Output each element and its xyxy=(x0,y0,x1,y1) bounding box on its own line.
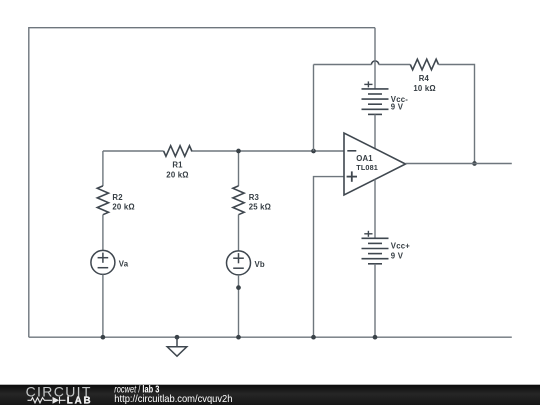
svg-text:R2: R2 xyxy=(112,193,123,202)
battery Vcc- xyxy=(362,88,389,90)
wire bottom rail xyxy=(29,336,512,338)
wire R2 bottom to Va xyxy=(102,215,104,251)
resistor R3 xyxy=(233,186,244,215)
wire supply drop from top rail xyxy=(374,28,376,89)
ground xyxy=(175,335,180,340)
wire top rail xyxy=(29,28,375,338)
svg-text:TL081: TL081 xyxy=(356,163,378,172)
wire Vcc- to op-amp xyxy=(374,114,376,148)
op-amp non-inverting input plus sign xyxy=(347,176,357,178)
node Vcc+ bottom junction xyxy=(373,335,378,340)
node Vb lead junction xyxy=(236,285,241,290)
resistor R2 xyxy=(97,186,108,215)
wire feedback horizontal right of hop xyxy=(379,64,411,66)
svg-text:Vcc+: Vcc+ xyxy=(391,242,410,251)
wire R3 top lead xyxy=(238,151,240,186)
svg-text:9 V: 9 V xyxy=(391,251,404,260)
wire hop over supply wire xyxy=(372,61,379,65)
svg-text:R1: R1 xyxy=(172,160,183,169)
wire op-amp +in xyxy=(314,177,345,338)
svg-text:25 kΩ: 25 kΩ xyxy=(249,203,271,212)
wire feedback vertical from -in xyxy=(313,65,315,152)
battery Vcc+ xyxy=(362,237,389,239)
op-amp OA1 xyxy=(344,133,406,195)
resistor R1 xyxy=(164,146,192,157)
footer title text xyxy=(114,384,159,395)
svg-text:OA1: OA1 xyxy=(356,154,373,163)
svg-text:LAB: LAB xyxy=(67,395,93,405)
resistor R4 xyxy=(410,59,438,70)
source Vb xyxy=(227,251,251,275)
node output junction xyxy=(472,161,477,166)
node +in bottom junction xyxy=(311,335,316,340)
wire op-amp to Vcc+ xyxy=(374,179,376,238)
op-amp inverting input minus sign xyxy=(347,150,356,152)
wire output xyxy=(406,163,512,165)
wire R2 top lead xyxy=(102,151,104,186)
wire feedback horizontal left of hop xyxy=(314,64,372,66)
svg-text:Va: Va xyxy=(119,259,129,268)
wire Vb bottom lead xyxy=(238,275,240,337)
wire Vcc+ to bottom rail xyxy=(374,264,376,337)
wire input net (R2 top to op-amp minus input) xyxy=(103,150,164,152)
svg-text:20 kΩ: 20 kΩ xyxy=(112,202,134,211)
svg-text:R4: R4 xyxy=(419,74,430,83)
node Vb-bottom junction xyxy=(236,335,241,340)
node Va-bottom junction xyxy=(101,335,106,340)
svg-text:9 V: 9 V xyxy=(391,103,404,112)
node feedback tap junction xyxy=(311,149,316,154)
node R1-R3 junction xyxy=(236,149,241,154)
logo squiggle and diode xyxy=(28,397,66,404)
source Va xyxy=(91,250,115,274)
footer url text xyxy=(114,394,232,405)
footer bar xyxy=(0,385,540,405)
svg-text:10 kΩ: 10 kΩ xyxy=(413,84,435,93)
svg-text:http://circuitlab.com/cvquv2h: http://circuitlab.com/cvquv2h xyxy=(114,394,232,405)
wire R3 bottom to Vb xyxy=(238,215,240,251)
wire feedback to output xyxy=(439,65,475,164)
svg-text:R3: R3 xyxy=(249,193,260,202)
svg-text:Vb: Vb xyxy=(255,260,265,269)
wire Va bottom lead xyxy=(102,274,104,337)
svg-text:20 kΩ: 20 kΩ xyxy=(166,170,188,179)
